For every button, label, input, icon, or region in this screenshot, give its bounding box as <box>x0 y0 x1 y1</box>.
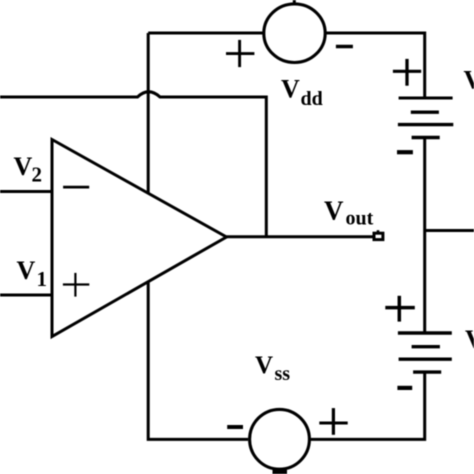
svg-text:V: V <box>17 256 36 285</box>
svg-text:2: 2 <box>32 163 43 187</box>
svg-text:ss: ss <box>275 363 291 385</box>
svg-text:V: V <box>281 74 300 103</box>
svg-text:V: V <box>464 65 474 94</box>
svg-text:V: V <box>255 352 273 379</box>
svg-text:out: out <box>346 208 374 230</box>
svg-text:V: V <box>324 196 344 226</box>
svg-text:1: 1 <box>37 267 48 291</box>
svg-text:V: V <box>14 152 33 181</box>
svg-text:V: V <box>465 325 474 354</box>
svg-text:dd: dd <box>301 88 323 110</box>
